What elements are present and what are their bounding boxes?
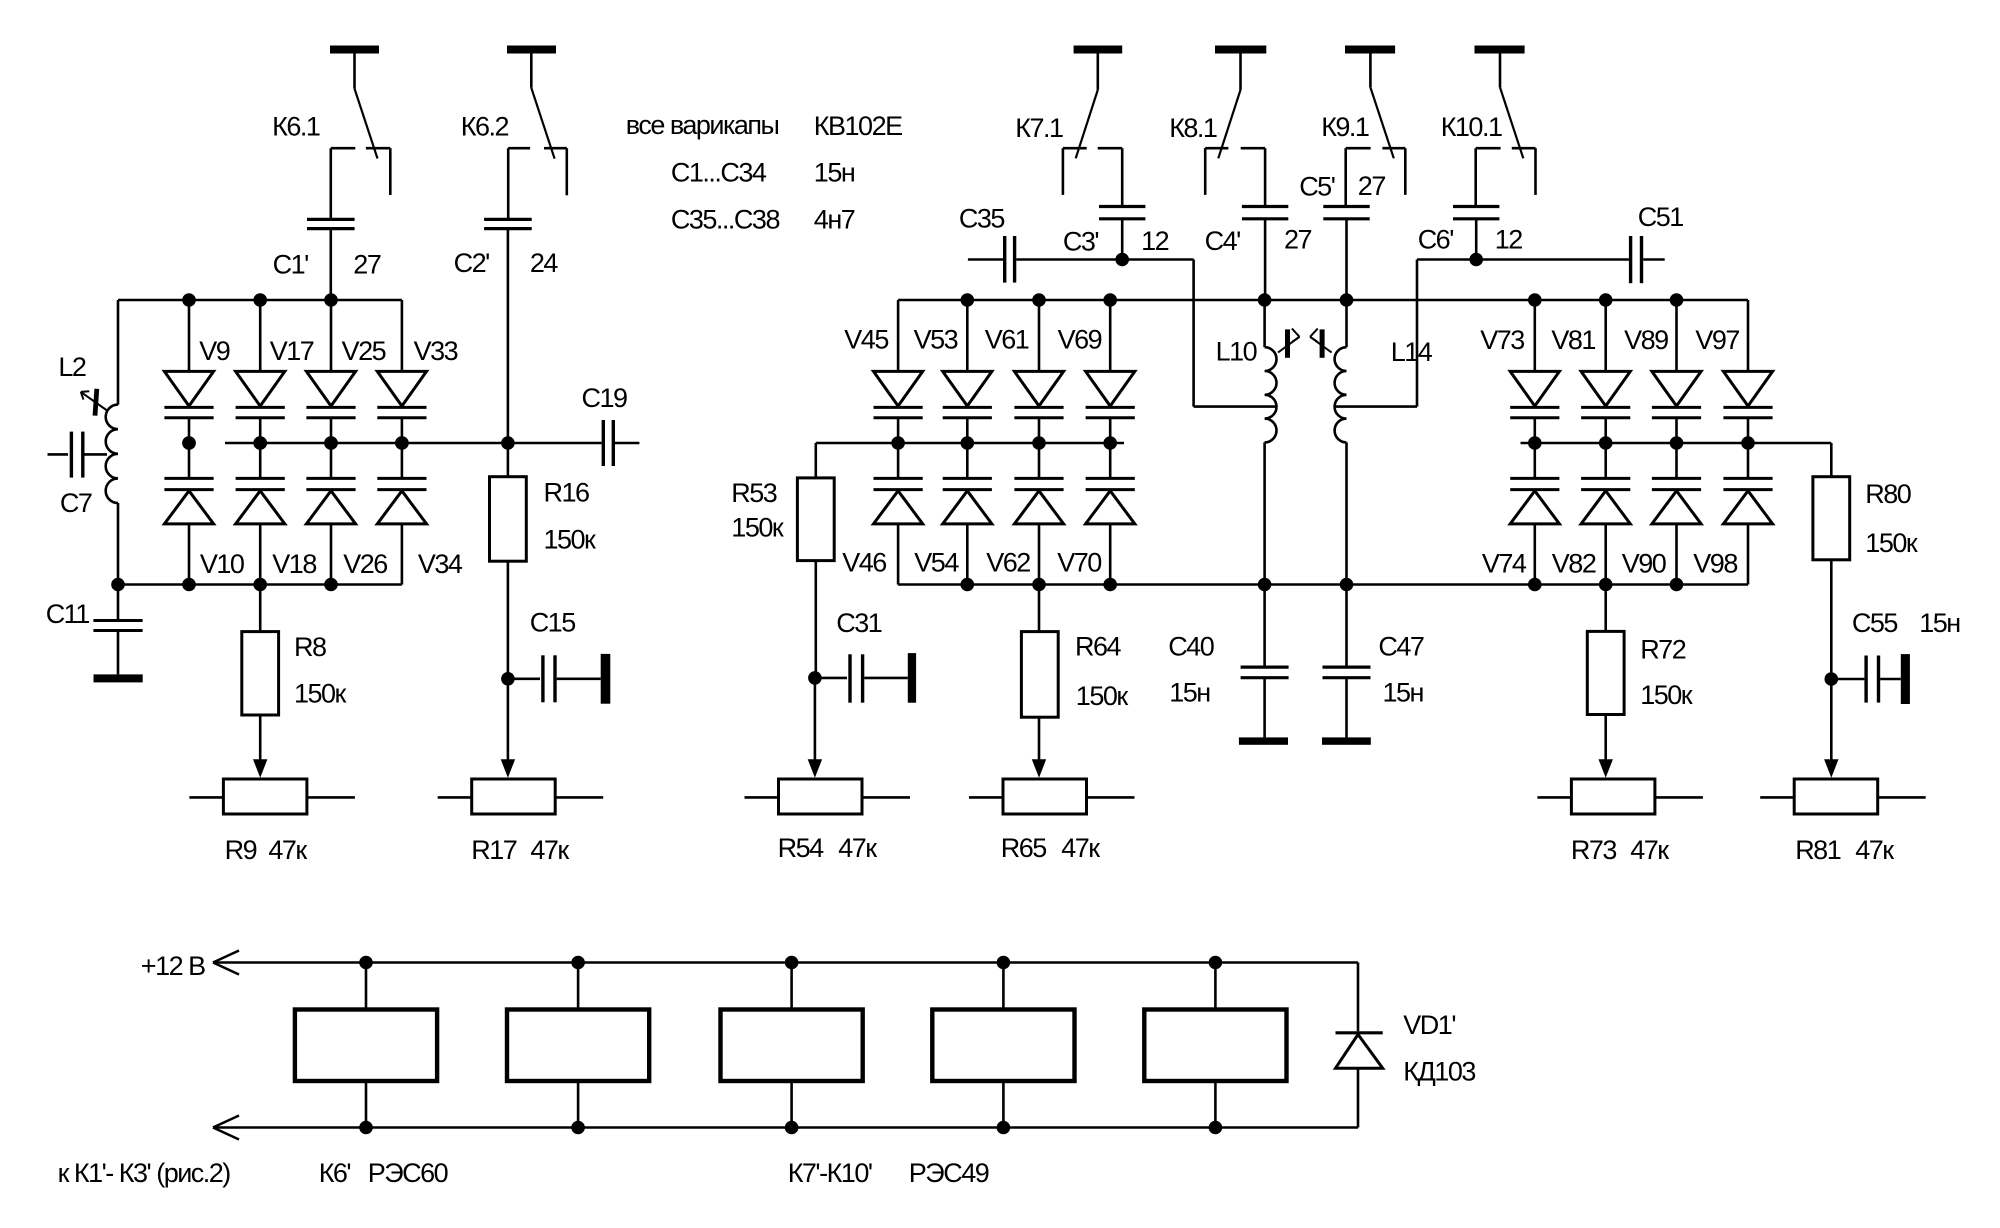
svg-text:47к: 47к bbox=[530, 835, 569, 865]
svg-text:V53: V53 bbox=[914, 325, 958, 355]
svg-text:27: 27 bbox=[353, 250, 381, 280]
svg-text:VD1': VD1' bbox=[1403, 1010, 1455, 1040]
svg-text:С35: С35 bbox=[959, 204, 1005, 234]
svg-text:R65: R65 bbox=[1001, 833, 1047, 863]
svg-text:к К1'- К3' (рис.2): к К1'- К3' (рис.2) bbox=[58, 1158, 231, 1188]
svg-text:V61: V61 bbox=[985, 325, 1029, 355]
svg-text:C4': C4' bbox=[1205, 226, 1241, 256]
svg-text:R53: R53 bbox=[731, 478, 777, 508]
svg-text:C7: C7 bbox=[60, 488, 92, 518]
svg-text:C55: C55 bbox=[1852, 608, 1898, 638]
svg-text:C2': C2' bbox=[454, 248, 490, 278]
svg-text:V45: V45 bbox=[844, 325, 888, 355]
svg-text:R16: R16 bbox=[544, 478, 590, 508]
svg-text:150к: 150к bbox=[294, 679, 347, 709]
svg-text:150к: 150к bbox=[1865, 528, 1918, 558]
svg-text:V82: V82 bbox=[1552, 549, 1596, 579]
svg-text:47к: 47к bbox=[1061, 833, 1100, 863]
svg-text:150к: 150к bbox=[1076, 681, 1129, 711]
svg-text:47к: 47к bbox=[1630, 835, 1669, 865]
svg-text:C3': C3' bbox=[1063, 227, 1099, 257]
svg-text:V89: V89 bbox=[1624, 325, 1668, 355]
svg-text:47к: 47к bbox=[838, 833, 877, 863]
svg-text:С35...С38: С35...С38 bbox=[671, 204, 780, 234]
svg-text:С1...С34: С1...С34 bbox=[671, 158, 767, 188]
svg-text:V10: V10 bbox=[200, 549, 244, 579]
svg-text:V33: V33 bbox=[414, 336, 458, 366]
svg-text:К10.1: К10.1 bbox=[1441, 112, 1502, 142]
svg-text:27: 27 bbox=[1284, 225, 1312, 255]
svg-text:47к: 47к bbox=[268, 835, 307, 865]
svg-text:15н: 15н bbox=[1919, 608, 1960, 638]
svg-text:24: 24 bbox=[530, 248, 559, 278]
svg-text:47к: 47к bbox=[1855, 835, 1894, 865]
svg-text:V90: V90 bbox=[1622, 549, 1666, 579]
svg-text:КВ102Е: КВ102Е bbox=[814, 111, 902, 141]
svg-text:V34: V34 bbox=[418, 549, 463, 579]
svg-text:V17: V17 bbox=[270, 336, 314, 366]
svg-text:R8: R8 bbox=[294, 632, 326, 662]
svg-text:К6': К6' bbox=[319, 1158, 351, 1188]
svg-text:V97: V97 bbox=[1695, 325, 1739, 355]
svg-text:V74: V74 bbox=[1482, 549, 1527, 579]
svg-text:R80: R80 bbox=[1865, 479, 1911, 509]
svg-text:V70: V70 bbox=[1057, 548, 1101, 578]
svg-text:V98: V98 bbox=[1693, 549, 1737, 579]
svg-text:150к: 150к bbox=[544, 525, 597, 555]
svg-text:К7'-К10': К7'-К10' bbox=[788, 1158, 872, 1188]
svg-text:V73: V73 bbox=[1480, 325, 1524, 355]
svg-text:27: 27 bbox=[1358, 171, 1386, 201]
svg-text:С51: С51 bbox=[1638, 202, 1684, 232]
svg-text:C47: C47 bbox=[1378, 631, 1424, 661]
svg-text:V81: V81 bbox=[1551, 325, 1595, 355]
svg-text:R72: R72 bbox=[1640, 634, 1686, 664]
svg-text:К7.1: К7.1 bbox=[1015, 113, 1063, 143]
svg-text:R54: R54 bbox=[778, 833, 825, 863]
svg-text:V46: V46 bbox=[842, 548, 886, 578]
svg-text:R17: R17 bbox=[471, 835, 517, 865]
svg-text:РЭС49: РЭС49 bbox=[909, 1158, 989, 1188]
svg-text:15н: 15н bbox=[1383, 678, 1424, 708]
svg-text:К6.2: К6.2 bbox=[461, 112, 509, 142]
svg-text:V62: V62 bbox=[986, 548, 1030, 578]
svg-text:R64: R64 bbox=[1075, 632, 1122, 662]
svg-text:V69: V69 bbox=[1058, 325, 1102, 355]
svg-text:R81: R81 bbox=[1795, 835, 1841, 865]
svg-text:L2: L2 bbox=[58, 352, 86, 382]
svg-text:К8.1: К8.1 bbox=[1169, 113, 1217, 143]
svg-text:C5': C5' bbox=[1299, 172, 1335, 202]
svg-text:C11: C11 bbox=[46, 599, 90, 629]
svg-text:V25: V25 bbox=[342, 336, 386, 366]
svg-text:R73: R73 bbox=[1571, 835, 1617, 865]
svg-text:КД103: КД103 bbox=[1403, 1057, 1475, 1087]
svg-text:C31: C31 bbox=[836, 608, 882, 638]
svg-text:150к: 150к bbox=[731, 512, 784, 542]
svg-text:C19: C19 bbox=[582, 383, 628, 413]
svg-text:L14: L14 bbox=[1391, 337, 1433, 367]
svg-text:V9: V9 bbox=[199, 336, 230, 366]
svg-text:V18: V18 bbox=[272, 549, 316, 579]
svg-text:C15: C15 bbox=[530, 608, 576, 638]
svg-text:L10: L10 bbox=[1216, 336, 1257, 366]
svg-text:C40: C40 bbox=[1168, 631, 1214, 661]
svg-text:12: 12 bbox=[1495, 225, 1523, 255]
svg-text:C6': C6' bbox=[1418, 225, 1454, 255]
svg-text:К9.1: К9.1 bbox=[1321, 112, 1369, 142]
svg-text:V26: V26 bbox=[343, 549, 387, 579]
svg-text:C1': C1' bbox=[273, 250, 309, 280]
svg-text:12: 12 bbox=[1141, 226, 1169, 256]
svg-text:V54: V54 bbox=[914, 548, 959, 578]
svg-text:+12 В: +12 В bbox=[141, 951, 205, 981]
svg-text:РЭС60: РЭС60 bbox=[368, 1158, 448, 1188]
svg-text:К6.1: К6.1 bbox=[272, 112, 320, 142]
svg-text:150к: 150к bbox=[1640, 680, 1693, 710]
svg-text:4н7: 4н7 bbox=[814, 204, 855, 234]
svg-text:все варикапы: все варикапы bbox=[626, 110, 779, 140]
svg-text:15н: 15н bbox=[1169, 678, 1210, 708]
svg-text:R9: R9 bbox=[225, 835, 257, 865]
svg-text:15н: 15н bbox=[814, 158, 855, 188]
